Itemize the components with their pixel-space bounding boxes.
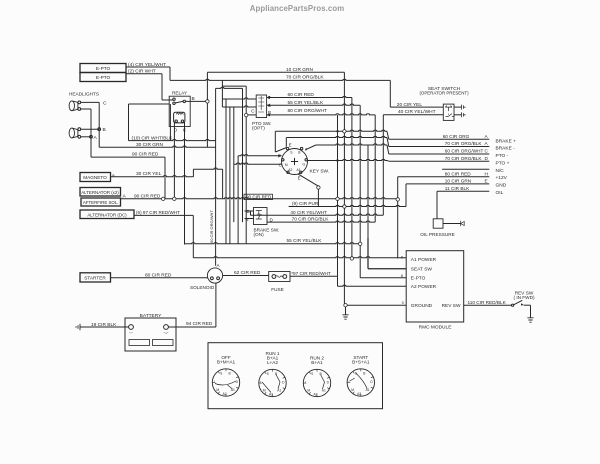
svg-text:B: B — [103, 127, 106, 133]
wire e-pto to rmc — [360, 245, 406, 277]
svg-text:A1: A1 — [277, 389, 281, 393]
svg-text:20 CIR YEL: 20 CIR YEL — [397, 102, 423, 108]
svg-text:MAGNETO: MAGNETO — [83, 175, 107, 180]
svg-text:19 CIR BLK: 19 CIR BLK — [91, 322, 117, 328]
svg-text:OIL: OIL — [496, 190, 504, 196]
svg-text:90 CIR RED: 90 CIR RED — [132, 151, 159, 157]
wire 55 CIR YEL/BLK pto — [267, 100, 361, 107]
wire 190 CIR PUR — [289, 201, 406, 206]
svg-text:60 CIR ORG/WHT: 60 CIR ORG/WHT — [445, 149, 484, 154]
key switch — [278, 142, 329, 180]
svg-text:FUSE: FUSE — [271, 287, 284, 292]
svg-text:KEY SW.: KEY SW. — [310, 169, 330, 175]
wire 97 CIR RED/WHT — [134, 210, 406, 258]
svg-text:STARTER: STARTER — [84, 276, 106, 281]
svg-text:REV SW: REV SW — [442, 303, 461, 309]
wire 10 CIR GRN gnd — [406, 179, 507, 207]
wire key B — [308, 159, 388, 161]
svg-text:A1: A1 — [366, 388, 370, 392]
wire key F — [238, 154, 282, 157]
svg-text:ALTERNATOR (x2): ALTERNATOR (x2) — [81, 190, 119, 195]
connector E-PTO 1 — [80, 64, 126, 73]
wire 80 CIR ORG/WHT pto — [267, 108, 376, 116]
svg-text:(6) 97 CIR RED/WHT: (6) 97 CIR RED/WHT — [136, 210, 180, 215]
wire seat sw to rmc — [368, 145, 406, 269]
headlamp 1 — [69, 101, 81, 111]
wire 40 CIR YEL/WHT brake — [251, 210, 384, 215]
wire ground rmc — [344, 72, 406, 314]
svg-text:M: M — [285, 163, 288, 167]
svg-text:(2) CIR WHT: (2) CIR WHT — [128, 69, 156, 75]
starter — [80, 273, 111, 282]
wire key E jog — [275, 130, 387, 152]
wire N/C — [442, 168, 504, 174]
svg-text:10 CIR GRN: 10 CIR GRN — [286, 67, 313, 73]
svg-text:M: M — [307, 389, 310, 393]
svg-text:11 CIR BLK: 11 CIR BLK — [445, 186, 470, 191]
svg-text:8: 8 — [401, 255, 403, 259]
alternator (DC) — [80, 210, 134, 219]
wire 30 CIR GRN — [99, 142, 215, 148]
svg-text:B+M+A1: B+M+A1 — [217, 360, 236, 365]
node C — [81, 100, 107, 147]
svg-text:PTO +: PTO + — [496, 160, 510, 166]
svg-text:M: M — [351, 388, 354, 392]
bus x226 — [225, 99, 227, 244]
wire 70 CIR ORG/BLK pto+ — [387, 156, 510, 167]
afterfire sol — [81, 193, 127, 206]
headlamp 2 — [69, 128, 81, 138]
wire 62 CIR RED — [223, 270, 269, 276]
svg-text:60 CIR ORG: 60 CIR ORG — [443, 134, 470, 139]
svg-text:(9) CIR PUR: (9) CIR PUR — [292, 201, 319, 206]
bus x222 — [222, 80, 246, 107]
svg-text:94 CIR RED: 94 CIR RED — [186, 321, 213, 327]
node A — [81, 135, 98, 141]
svg-text:40 CIR YEL/WHT: 40 CIR YEL/WHT — [290, 210, 327, 215]
fuse — [269, 272, 290, 293]
svg-text:H: H — [485, 171, 488, 176]
svg-text:110 CIR RED/BLK: 110 CIR RED/BLK — [468, 300, 507, 305]
bus x242 — [242, 88, 244, 222]
wire 70 CIR ORG/BLK brake- — [387, 138, 515, 152]
bus x359 — [359, 105, 361, 242]
svg-text:B+S+A1: B+S+A1 — [352, 360, 370, 365]
wire pto F left — [222, 98, 256, 99]
alternator (x2) — [80, 188, 121, 197]
svg-text:G: G — [303, 163, 306, 167]
svg-text:60 CIR RED: 60 CIR RED — [288, 92, 315, 98]
bus x246 — [245, 86, 247, 243]
svg-text:70 CIR ORG/BLK: 70 CIR ORG/BLK — [445, 141, 483, 146]
svg-text:(10) CIR WHT/BLK: (10) CIR WHT/BLK — [132, 135, 174, 141]
svg-text:A1: A1 — [297, 168, 301, 172]
svg-text:HEADLIGHTS: HEADLIGHTS — [69, 91, 99, 96]
svg-text:0: 0 — [402, 301, 404, 305]
wire pto A left — [222, 106, 256, 107]
key chart box — [208, 343, 383, 409]
wire 94 CIR RED — [168, 283, 216, 327]
node B — [81, 127, 106, 133]
connector E-PTO 2 — [80, 73, 126, 82]
svg-text:L: L — [214, 380, 216, 384]
svg-text:90 CIR RED: 90 CIR RED — [246, 195, 272, 200]
wire 80 CIR RED +12v — [398, 171, 508, 258]
RMC module U1 — [401, 251, 464, 331]
svg-text:80 CIR RED: 80 CIR RED — [445, 171, 471, 176]
svg-text:PTO -: PTO - — [496, 153, 509, 159]
bus x207 (relay B feed) — [206, 72, 208, 147]
svg-text:30 CIR YEL: 30 CIR YEL — [136, 171, 162, 177]
svg-text:RELAY: RELAY — [172, 90, 188, 95]
svg-text:ALTERNATOR (DC): ALTERNATOR (DC) — [87, 212, 127, 217]
svg-text:55 CIR YEL/BLK: 55 CIR YEL/BLK — [287, 238, 323, 243]
wire key E up — [286, 136, 387, 146]
svg-text:"+": "+" — [164, 332, 169, 336]
svg-text:BRAKE +: BRAKE + — [496, 138, 517, 144]
key position RUN 1 — [259, 351, 286, 397]
wire 40 CIR YEL/WHT seat — [383, 109, 443, 215]
bus x238 — [237, 156, 239, 244]
wire 60 CIR ORG/WHT pto- — [387, 145, 509, 159]
svg-text:BRAKE -: BRAKE - — [496, 146, 516, 152]
svg-text:A2: A2 — [288, 168, 292, 172]
wire 97 CIR RED/WHT fuse — [290, 271, 406, 286]
svg-text:E: E — [298, 175, 301, 180]
wire 10 CIR GRN top — [207, 67, 344, 73]
wire key C — [234, 163, 282, 164]
svg-text:( IN FWD): ( IN FWD) — [513, 295, 535, 300]
svg-text:*97 CIR RED/WHT: *97 CIR RED/WHT — [291, 271, 331, 276]
wire 70 CIR ORG/BLK brake — [267, 115, 375, 222]
wire lamp1 low — [81, 109, 91, 157]
wire 11 CIR BLK oil — [437, 186, 504, 219]
bus x215 (solenoid feed) — [216, 87, 243, 265]
svg-text:A1: A1 — [322, 389, 326, 393]
bus x229 — [229, 107, 231, 244]
svg-text:55 CIR YEL/BLK: 55 CIR YEL/BLK — [288, 100, 324, 106]
watermark — [250, 4, 345, 13]
svg-text:M: M — [263, 389, 266, 393]
svg-text:A1: A1 — [231, 388, 235, 392]
svg-text:AppliancePartsPros.com: AppliancePartsPros.com — [250, 4, 345, 13]
bus x233 — [233, 107, 235, 222]
svg-text:SOLENOID: SOLENOID — [190, 285, 215, 290]
svg-text:90 CIR RED: 90 CIR RED — [134, 193, 161, 199]
rev switch — [511, 290, 534, 317]
svg-text:C: C — [251, 109, 255, 115]
svg-text:E: E — [289, 142, 292, 147]
svg-text:(OPERATOR PRESENT): (OPERATOR PRESENT) — [419, 91, 469, 96]
ground symbol rmc — [342, 315, 348, 319]
seat switch — [419, 86, 469, 120]
wire (10) CIR WHT/BLK loop — [129, 104, 216, 141]
wire key A1 diag — [298, 174, 319, 207]
svg-text:70 CIR ORG/BLK: 70 CIR ORG/BLK — [445, 156, 483, 161]
svg-text:L+A2: L+A2 — [267, 360, 278, 365]
wire 90 CIR RED left — [91, 151, 165, 198]
svg-text:(OPT): (OPT) — [252, 125, 265, 130]
svg-text:E-PTO: E-PTO — [96, 66, 111, 71]
svg-text:+12V: +12V — [496, 175, 508, 181]
wire 30 CIR YEL — [111, 168, 223, 199]
wire 80 CIR RED starter — [111, 272, 208, 278]
svg-text:E-PTO: E-PTO — [96, 75, 111, 80]
wire 55 CIR YEL/BLK low — [185, 238, 359, 244]
svg-text:SEAT SW: SEAT SW — [411, 267, 433, 273]
svg-text:40 CIR YEL/WHT: 40 CIR YEL/WHT — [398, 109, 436, 115]
wire 60 CIR RED — [267, 92, 352, 99]
svg-text:80 CIR RED: 80 CIR RED — [145, 272, 172, 278]
junction circles overlay — [162, 100, 400, 307]
svg-text:GROUND: GROUND — [411, 303, 433, 309]
svg-text:80 CIR ORG/WHT: 80 CIR ORG/WHT — [288, 108, 328, 114]
svg-text:A1 POWER: A1 POWER — [411, 257, 437, 263]
svg-text:N/C: N/C — [496, 168, 505, 174]
svg-text:(ON): (ON) — [254, 232, 265, 237]
battery — [125, 313, 176, 351]
svg-text:OIL PRESSURE: OIL PRESSURE — [420, 232, 454, 237]
oil pressure switch — [420, 219, 464, 237]
wire relay pin C — [184, 122, 186, 215]
svg-text:L: L — [305, 380, 307, 384]
magneto — [80, 173, 116, 182]
PTO switch — [251, 95, 272, 130]
svg-text:RMC MODULE: RMC MODULE — [419, 325, 452, 331]
bus x351 — [351, 98, 353, 257]
wire a2 jog — [337, 115, 339, 276]
wire (2) CIR WHT — [126, 69, 162, 100]
svg-text:(4) CIR YEL/WHT: (4) CIR YEL/WHT — [128, 62, 166, 68]
ground symbol rev — [527, 318, 533, 322]
wire relay pin D — [173, 122, 175, 198]
ground battery minus — [76, 322, 129, 330]
svg-text:62 CIR RED: 62 CIR RED — [234, 270, 261, 276]
wire pto C — [248, 114, 257, 116]
brake switch — [245, 208, 280, 238]
key position OFF — [212, 355, 239, 396]
svg-text:30 CIR GRN: 30 CIR GRN — [136, 142, 163, 148]
key position RUN 2 — [303, 356, 330, 397]
svg-text:70 CIR ORG/BLK: 70 CIR ORG/BLK — [292, 217, 330, 222]
svg-text:GND: GND — [496, 182, 507, 188]
svg-text:60 CIR ORG/WHT: 60 CIR ORG/WHT — [209, 210, 214, 243]
wire 90 CIR RED afterfire — [121, 193, 398, 199]
wire 70 CIR ORG/BLK top — [170, 75, 390, 81]
wire 20 CIR YEL — [390, 80, 443, 108]
svg-text:10 CIR GRN: 10 CIR GRN — [445, 179, 471, 184]
wire (4) CIR YEL/WHT — [126, 62, 170, 81]
svg-text:E-PTO: E-PTO — [411, 276, 426, 282]
key position START — [347, 355, 374, 396]
wire 60 CIR ORG brake+ — [336, 130, 516, 144]
wire relay B — [186, 96, 208, 102]
wire key G diag — [305, 144, 387, 150]
svg-text:B: B — [192, 96, 195, 102]
svg-text:B: B — [246, 217, 249, 222]
svg-text:70 CIR ORG/BLK: 70 CIR ORG/BLK — [286, 75, 324, 81]
svg-text:C: C — [103, 100, 107, 106]
svg-text:E: E — [485, 179, 488, 184]
wire 110 CIR RED/BLK — [464, 300, 512, 305]
relay K1 — [162, 90, 190, 133]
headlights label — [69, 91, 99, 96]
svg-text:A2 POWER: A2 POWER — [411, 284, 437, 290]
label 60 CIR ORG/WHT vertical — [209, 210, 214, 243]
solenoid — [190, 263, 223, 290]
svg-text:M: M — [216, 388, 219, 392]
svg-text:B+A1: B+A1 — [311, 360, 323, 365]
svg-text:AFTERFIRE SOL.: AFTERFIRE SOL. — [83, 200, 119, 205]
